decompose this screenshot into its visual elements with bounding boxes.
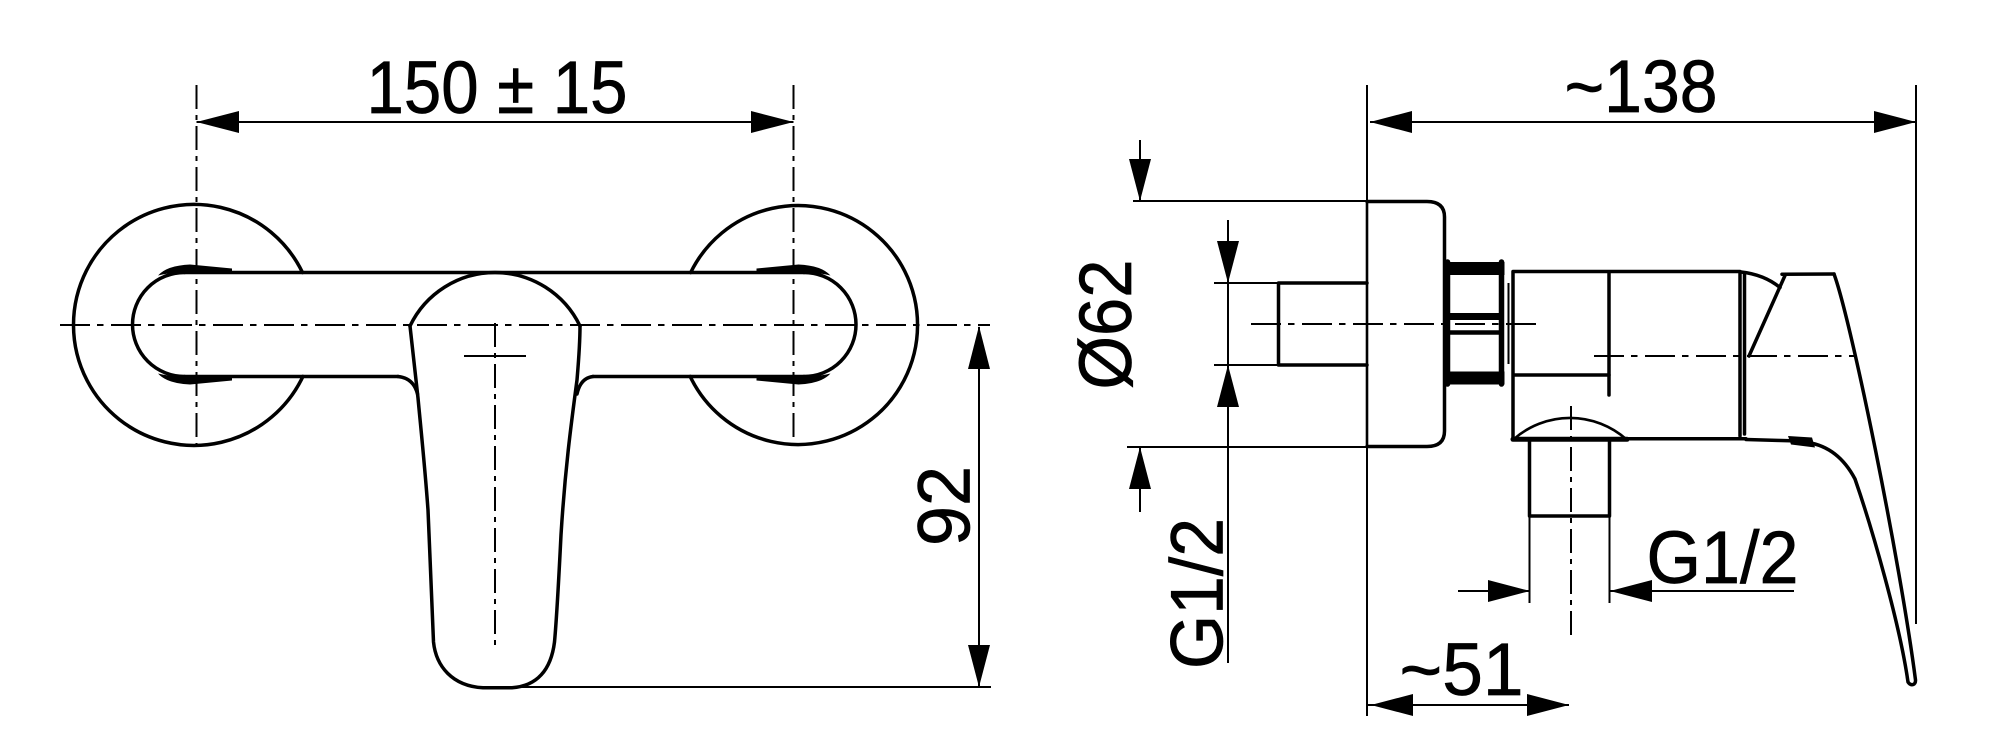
svg-text:G1/2: G1/2 [1156,518,1239,669]
svg-text:~138: ~138 [1565,45,1718,128]
svg-text:92: 92 [903,466,986,546]
svg-text:~51: ~51 [1400,628,1524,711]
svg-text:Ø62: Ø62 [1064,260,1147,390]
svg-text:150 ± 15: 150 ± 15 [367,46,628,129]
svg-text:G1/2: G1/2 [1647,516,1799,599]
